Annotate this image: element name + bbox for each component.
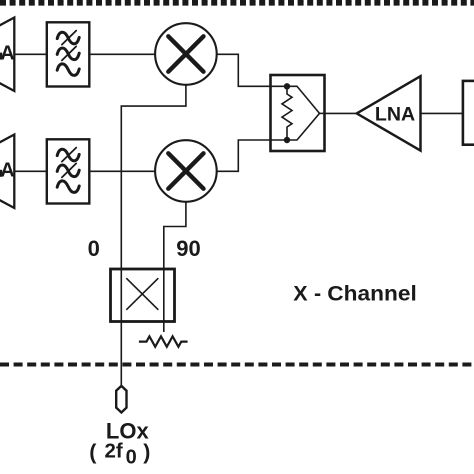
svg-text:90: 90: [176, 236, 200, 261]
svg-text:2f: 2f: [105, 439, 123, 462]
svg-text:LNA: LNA: [375, 103, 415, 125]
svg-text:-: -: [314, 281, 321, 305]
svg-text:X: X: [293, 281, 308, 305]
svg-text:A: A: [0, 42, 14, 64]
svg-text:0: 0: [126, 447, 137, 469]
svg-text:Channel: Channel: [327, 281, 417, 305]
svg-text:0: 0: [88, 236, 100, 261]
svg-text:(: (: [89, 440, 97, 464]
svg-text:A: A: [0, 160, 14, 182]
svg-text:): ): [143, 440, 150, 464]
